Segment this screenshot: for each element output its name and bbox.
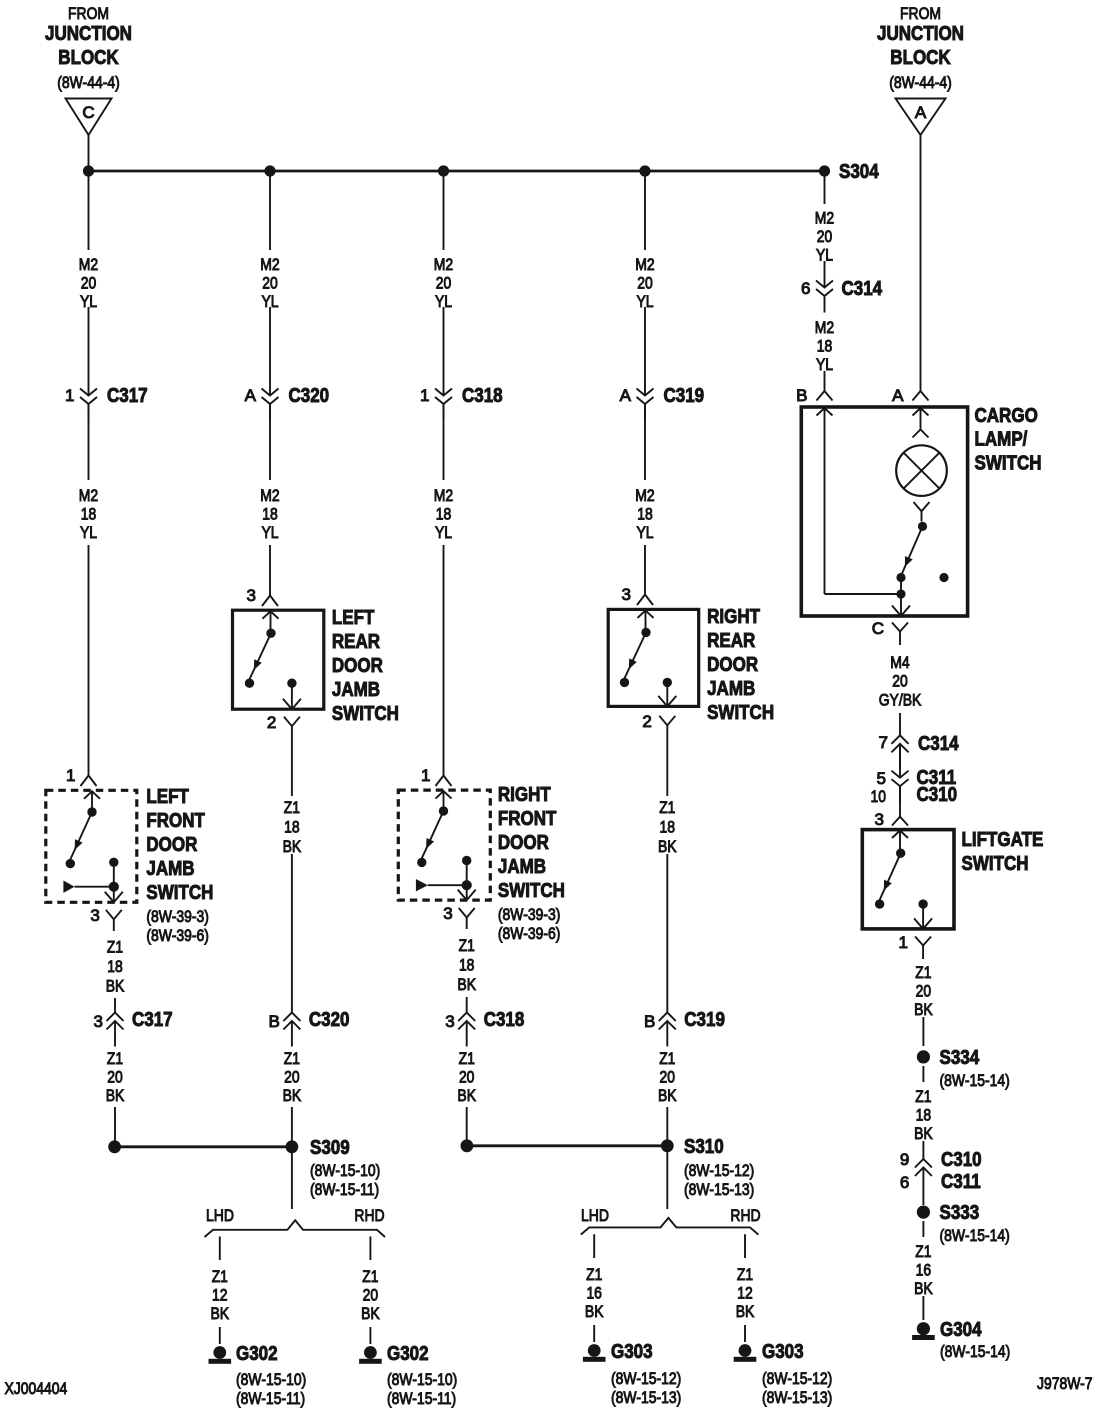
left rear door jamb switch contacts [245, 611, 297, 688]
connector triangle C [66, 99, 112, 136]
svg-text:9: 9 [900, 1150, 909, 1169]
svg-text:JAMB: JAMB [498, 856, 546, 878]
right front door jamb switch pin1 chevron [436, 791, 452, 799]
svg-text:(8W-39-3): (8W-39-3) [146, 907, 209, 926]
splice S309 [286, 1137, 381, 1199]
wire C310 to liftgate [899, 786, 901, 816]
svg-text:(8W-15-10): (8W-15-10) [236, 1370, 306, 1389]
cargo switch arm [902, 526, 923, 573]
splice junction col4 [639, 165, 650, 176]
svg-text:20: 20 [637, 274, 653, 293]
svg-text:3: 3 [875, 810, 884, 829]
cargo lamp terminal chevron [913, 430, 929, 438]
svg-text:BK: BK [283, 1086, 302, 1105]
wire col4 mid [644, 307, 646, 396]
svg-text:20: 20 [363, 1286, 379, 1305]
svg-text:BK: BK [283, 837, 302, 856]
liftgate pin3 chevron [892, 831, 908, 839]
right rear door jamb switch pin3 chevron [638, 610, 654, 618]
splice S333 [917, 1202, 1010, 1245]
left rear door jamb switch pin2 arrow [283, 683, 301, 709]
svg-text:C311: C311 [941, 1171, 981, 1193]
pin 2 fork right rear switch [642, 712, 675, 741]
svg-text:Z1: Z1 [212, 1267, 228, 1286]
svg-text:B: B [269, 1012, 280, 1031]
svg-text:M2: M2 [79, 255, 98, 274]
sheet code XJ004404 [5, 1379, 68, 1398]
LHD RHD labels S309 [206, 1206, 385, 1225]
svg-text:20: 20 [436, 274, 452, 293]
svg-text:(8W-15-10): (8W-15-10) [387, 1370, 457, 1389]
svg-text:20: 20 [262, 274, 278, 293]
splice junction col1 [83, 165, 94, 176]
wire col2 long to C320 B [291, 854, 293, 1013]
svg-text:JUNCTION: JUNCTION [877, 23, 964, 45]
wire label M2 18 YL S304 [815, 318, 834, 374]
pin A fork cargo lamp [892, 386, 928, 405]
svg-text:18: 18 [817, 337, 833, 356]
wire label Z1 18 BK col2 [283, 798, 302, 856]
wire RHD branch S309 [369, 1237, 371, 1261]
pin 1 label right front switch [421, 766, 430, 785]
svg-text:C319: C319 [684, 1009, 725, 1031]
svg-text:(8W-39-6): (8W-39-6) [146, 926, 209, 945]
right rear door jamb switch contacts [620, 610, 672, 687]
wire label Z1 12 BK S310 RHD [736, 1265, 755, 1321]
right rear door jamb switch name [707, 606, 774, 724]
liftgate switch box [862, 830, 954, 929]
svg-text:C318: C318 [462, 385, 503, 407]
LHD RHD labels S310 [581, 1206, 761, 1225]
svg-text:LAMP/: LAMP/ [975, 429, 1028, 451]
svg-text:C314: C314 [842, 278, 883, 300]
cargo switch contact open [939, 573, 948, 582]
svg-text:(8W-15-12): (8W-15-12) [762, 1369, 832, 1388]
svg-text:RIGHT: RIGHT [498, 784, 551, 806]
svg-text:16: 16 [586, 1284, 602, 1303]
wire col3 to switch [436, 545, 452, 786]
pin 3 fork left front switch [90, 906, 121, 931]
svg-text:DOOR: DOOR [498, 832, 549, 854]
svg-text:REAR: REAR [707, 630, 756, 652]
wire label Z1 16 BK S310 LHD [585, 1265, 604, 1321]
svg-text:1: 1 [65, 386, 74, 405]
svg-text:M2: M2 [260, 255, 279, 274]
svg-text:C: C [82, 103, 94, 122]
svg-text:18: 18 [262, 505, 278, 524]
svg-text:A: A [915, 103, 927, 122]
wire col3 below C318 [443, 404, 445, 480]
svg-text:BK: BK [106, 1086, 125, 1105]
pin C fork cargo lamp [872, 619, 908, 645]
left front door jamb switch pin3 arrow [105, 887, 123, 903]
svg-text:BLOCK: BLOCK [58, 47, 119, 69]
left front door jamb switch box [46, 790, 137, 902]
wire col3 upper [443, 171, 445, 250]
svg-text:LHD: LHD [206, 1206, 234, 1225]
wire S304 to cargo pin B [824, 371, 826, 391]
wire col4 long to C319 B [666, 854, 668, 1013]
pin 3 fork right front switch [443, 904, 474, 929]
svg-text:S334: S334 [940, 1047, 980, 1069]
connector C319 pinB [644, 1009, 725, 1047]
wire col2 below C320 [269, 404, 271, 480]
wire M4 down [899, 713, 901, 735]
svg-text:Z1: Z1 [459, 936, 475, 955]
svg-text:LIFTGATE: LIFTGATE [962, 829, 1044, 851]
svg-text:BK: BK [658, 1086, 677, 1105]
cargo lamp lower fork [914, 502, 930, 521]
svg-text:JAMB: JAMB [707, 678, 755, 700]
svg-text:(8W-44-4): (8W-44-4) [57, 73, 120, 92]
svg-text:RHD: RHD [354, 1206, 384, 1225]
connector C317 pin3 [94, 1009, 173, 1047]
wire col4 below switch [666, 741, 668, 796]
svg-text:Z1: Z1 [107, 938, 123, 957]
wire S309 horizontal [115, 1145, 292, 1148]
svg-text:20: 20 [660, 1068, 676, 1087]
svg-text:7: 7 [879, 733, 888, 752]
svg-text:M2: M2 [635, 486, 654, 505]
svg-text:M2: M2 [815, 318, 834, 337]
svg-text:Z1: Z1 [659, 798, 675, 817]
pin 1 label left front switch [66, 766, 75, 785]
wire col1 to C317 lower [114, 998, 116, 1013]
svg-text:BK: BK [211, 1304, 230, 1323]
svg-text:Z1: Z1 [737, 1265, 753, 1284]
svg-text:(8W-39-6): (8W-39-6) [498, 924, 561, 943]
svg-text:SWITCH: SWITCH [975, 452, 1042, 474]
right front door jamb switch name [498, 784, 565, 943]
svg-text:20: 20 [107, 1068, 123, 1087]
wire label M2 20 YL col3 [434, 255, 453, 311]
wire label Z1 20 BK col1 lower [106, 1049, 125, 1105]
cargo pin C arrow [892, 594, 910, 616]
svg-text:5: 5 [877, 769, 886, 788]
wire S333 dash [922, 1221, 924, 1237]
svg-text:XJ004404: XJ004404 [5, 1379, 68, 1398]
svg-text:YL: YL [636, 523, 653, 542]
wire label M2 18 YL col1 [79, 486, 98, 542]
svg-text:3: 3 [622, 585, 631, 604]
svg-text:20: 20 [916, 982, 932, 1001]
splice S304 [819, 161, 880, 183]
svg-text:YL: YL [261, 523, 278, 542]
wire to S334 [922, 1017, 924, 1046]
pin 1 fork liftgate [899, 933, 932, 959]
wire col1 to S309 [114, 1107, 116, 1141]
svg-text:J978W-7: J978W-7 [1037, 1374, 1093, 1393]
svg-text:M2: M2 [434, 486, 453, 505]
svg-text:B: B [796, 386, 807, 405]
wire col3 to S310 [466, 1107, 468, 1141]
left rear door jamb switch pin3 chevron [263, 611, 279, 619]
svg-text:CARGO: CARGO [975, 405, 1038, 427]
svg-text:(8W-15-13): (8W-15-13) [611, 1388, 681, 1407]
svg-text:A: A [245, 386, 257, 405]
connector C320 pinB [269, 1009, 350, 1047]
svg-text:(8W-15-11): (8W-15-11) [236, 1389, 305, 1408]
connector C318 pin1 [420, 385, 503, 421]
wire col4 upper [644, 171, 646, 250]
wire col1 below C317 [88, 404, 90, 480]
svg-text:JAMB: JAMB [332, 679, 380, 701]
wire S334 dash [922, 1066, 924, 1082]
svg-text:BK: BK [585, 1302, 604, 1321]
right rear door jamb switch pin2 arrow [658, 682, 676, 706]
svg-text:M4: M4 [890, 653, 909, 672]
svg-text:LHD: LHD [581, 1206, 609, 1225]
cargo internal B wire [825, 409, 902, 595]
svg-text:6: 6 [801, 279, 810, 298]
wire label M2 20 YL col4 [635, 255, 654, 311]
svg-text:(8W-15-13): (8W-15-13) [762, 1388, 832, 1407]
svg-text:C314: C314 [918, 733, 959, 755]
svg-text:C310: C310 [917, 784, 958, 806]
splice S310 left junction [461, 1139, 474, 1152]
svg-text:(8W-15-12): (8W-15-12) [611, 1369, 681, 1388]
wire label M2 18 YL col2 [260, 486, 279, 542]
splice S309 left junction [108, 1140, 121, 1153]
svg-text:C320: C320 [289, 385, 330, 407]
svg-text:BK: BK [457, 975, 476, 994]
svg-text:RHD: RHD [730, 1206, 760, 1225]
svg-text:BK: BK [914, 1124, 933, 1143]
svg-text:GY/BK: GY/BK [879, 691, 922, 710]
cargo pin A chevron [913, 408, 929, 416]
ground G303 RHD [734, 1341, 833, 1407]
left front door jamb switch contacts [66, 791, 119, 868]
svg-text:FROM: FROM [68, 4, 109, 23]
ground G302 RHD [359, 1343, 457, 1408]
wire col2 to switch [262, 545, 278, 606]
svg-text:Z1: Z1 [459, 1049, 475, 1068]
svg-text:3: 3 [94, 1012, 103, 1031]
svg-text:SWITCH: SWITCH [332, 703, 399, 725]
wire S304 to C314 [824, 261, 826, 288]
connector C311 pin5 [877, 767, 957, 803]
wire RHD branch S310 [744, 1234, 746, 1258]
wire label M4 20 GYBK [879, 653, 922, 710]
bus wire from C [89, 170, 825, 173]
svg-text:(8W-15-11): (8W-15-11) [310, 1180, 379, 1199]
svg-text:18: 18 [459, 956, 475, 975]
wire label Z1 20 BK col4 [658, 1049, 677, 1105]
wire col2 below switch [291, 742, 293, 796]
svg-text:(8W-15-12): (8W-15-12) [684, 1161, 754, 1180]
wire to G302 LHD [219, 1327, 221, 1344]
pin 2 fork left rear switch [267, 713, 300, 742]
svg-text:YL: YL [80, 523, 97, 542]
svg-text:18: 18 [107, 957, 123, 976]
svg-text:FRONT: FRONT [498, 808, 557, 830]
svg-text:Z1: Z1 [284, 798, 300, 817]
svg-text:BK: BK [736, 1302, 755, 1321]
svg-text:20: 20 [459, 1068, 475, 1087]
cargo lamp switch box [801, 407, 967, 616]
svg-text:DOOR: DOOR [707, 654, 758, 676]
svg-text:C317: C317 [132, 1009, 173, 1031]
svg-text:(8W-15-11): (8W-15-11) [387, 1389, 456, 1408]
splice junction col2 [264, 165, 275, 176]
svg-text:M2: M2 [260, 486, 279, 505]
cargo internal node [896, 578, 905, 599]
pin B fork cargo lamp [796, 386, 832, 405]
wire label Z1 20 BK col2 [283, 1049, 302, 1105]
svg-text:SWITCH: SWITCH [707, 702, 774, 724]
splice S334 [917, 1047, 1010, 1090]
right front door jamb switch pin3 arrow [458, 885, 476, 900]
sheet code J978W-7 [1037, 1374, 1093, 1393]
svg-text:18: 18 [660, 818, 676, 837]
right front door jamb switch plunger [416, 861, 472, 892]
svg-text:G302: G302 [387, 1343, 429, 1365]
left front door jamb switch plunger [63, 862, 119, 893]
svg-text:DOOR: DOOR [332, 655, 383, 677]
svg-text:SWITCH: SWITCH [962, 853, 1029, 875]
svg-text:G304: G304 [940, 1319, 982, 1341]
svg-text:3: 3 [90, 906, 99, 925]
svg-text:3: 3 [247, 586, 256, 605]
svg-text:1: 1 [420, 386, 429, 405]
wire label M2 18 YL col4 [635, 486, 654, 542]
wire label Z1 18 BK liftgate [914, 1087, 933, 1143]
wire col4 below C319 [644, 404, 646, 480]
liftgate pin1 arrow [914, 904, 932, 929]
svg-text:G303: G303 [762, 1341, 804, 1363]
ground G303 LHD [583, 1341, 681, 1407]
svg-text:Z1: Z1 [586, 1265, 602, 1284]
right front door jamb switch contacts [417, 791, 471, 867]
connector C318 pin3 [445, 1009, 524, 1047]
right front door jamb switch box [398, 790, 490, 900]
split brace S310 [581, 1218, 759, 1235]
svg-text:M2: M2 [635, 255, 654, 274]
svg-text:(8W-39-3): (8W-39-3) [498, 905, 561, 924]
wire label Z1 18 BK col4 [658, 798, 677, 856]
svg-text:(8W-15-14): (8W-15-14) [940, 1342, 1010, 1361]
wire label M2 20 YL S304 [815, 209, 834, 265]
connector C319 pinA [620, 385, 704, 421]
wire label Z1 18 BK col1 lower [106, 938, 125, 996]
pin 3 label right rear switch [622, 585, 631, 604]
svg-text:(8W-15-14): (8W-15-14) [940, 1226, 1010, 1245]
svg-text:S310: S310 [684, 1136, 724, 1158]
wire LHD branch S309 [219, 1237, 221, 1261]
wire label M2 18 YL col3 [434, 486, 453, 542]
wire label Z1 20 BK liftgate [914, 963, 933, 1019]
wire col3 mid [443, 307, 445, 396]
svg-text:JUNCTION: JUNCTION [45, 23, 132, 45]
svg-text:G303: G303 [611, 1341, 653, 1363]
wire to G303 RHD [744, 1325, 746, 1342]
cargo lamp bulb [896, 445, 947, 496]
svg-text:Z1: Z1 [659, 1049, 675, 1068]
svg-text:FRONT: FRONT [146, 810, 205, 832]
svg-text:B: B [644, 1012, 655, 1031]
split brace S309 [205, 1220, 386, 1237]
svg-text:S333: S333 [940, 1202, 980, 1224]
connector C314 pin6 [801, 278, 883, 313]
wire S310 down to split [666, 1146, 668, 1209]
svg-text:Z1: Z1 [107, 1049, 123, 1068]
cargo internal A wire [920, 408, 922, 430]
pin 10 label C310 [871, 784, 958, 806]
left rear door jamb switch box [233, 610, 324, 709]
liftgate switch contacts [875, 831, 928, 909]
wire triangle A to cargo lamp pin A [920, 135, 922, 391]
left rear door jamb switch name [332, 607, 399, 725]
svg-text:Z1: Z1 [915, 1242, 931, 1261]
svg-text:BLOCK: BLOCK [890, 47, 951, 69]
cargo switch pivot [918, 522, 927, 531]
wire to G303 LHD [593, 1325, 595, 1342]
svg-text:Z1: Z1 [915, 1087, 931, 1106]
svg-text:FROM: FROM [900, 4, 941, 23]
svg-text:20: 20 [817, 227, 833, 246]
svg-text:1: 1 [899, 933, 908, 952]
svg-text:BK: BK [658, 837, 677, 856]
svg-text:6: 6 [900, 1173, 909, 1192]
right rear door jamb switch box [608, 609, 699, 706]
junction block feed A label [877, 4, 964, 92]
svg-text:C320: C320 [309, 1009, 350, 1031]
svg-text:12: 12 [212, 1286, 228, 1305]
svg-text:M2: M2 [79, 486, 98, 505]
wire to G302 RHD [369, 1327, 371, 1344]
wire label Z1 18 BK col3 lower [457, 936, 476, 994]
wire col1 to switch [81, 545, 97, 786]
svg-text:M2: M2 [434, 255, 453, 274]
svg-text:C310: C310 [941, 1149, 982, 1171]
left front door jamb switch name [146, 786, 213, 945]
junction block feed C label [45, 4, 132, 92]
svg-text:C319: C319 [664, 385, 705, 407]
wire col2 mid [269, 307, 271, 396]
svg-text:A: A [620, 386, 632, 405]
splice junction col3 [438, 165, 449, 176]
svg-text:18: 18 [637, 505, 653, 524]
wire label Z1 20 BK col3 lower [457, 1049, 476, 1105]
connector C320 pinA [245, 385, 329, 421]
splice S310 [661, 1136, 754, 1199]
svg-text:BK: BK [361, 1304, 380, 1323]
svg-text:Z1: Z1 [915, 963, 931, 982]
svg-text:1: 1 [66, 766, 75, 785]
connector C314 pin7 [879, 733, 960, 769]
svg-text:20: 20 [284, 1068, 300, 1087]
wire between C314 C311 [899, 744, 901, 778]
svg-text:DOOR: DOOR [146, 834, 197, 856]
svg-text:BK: BK [914, 1000, 933, 1019]
wire S304 down [824, 171, 826, 204]
svg-text:LEFT: LEFT [146, 786, 189, 808]
svg-text:LEFT: LEFT [332, 607, 375, 629]
wire col1 upper [88, 171, 90, 250]
svg-text:18: 18 [284, 818, 300, 837]
svg-text:3: 3 [443, 904, 452, 923]
ground G304 [912, 1319, 1010, 1361]
svg-text:18: 18 [436, 505, 452, 524]
svg-text:S304: S304 [839, 161, 879, 183]
wire col2 upper [269, 171, 271, 250]
svg-text:(8W-15-14): (8W-15-14) [940, 1071, 1010, 1090]
wire label Z1 12 BK S309 LHD [211, 1267, 230, 1323]
svg-text:18: 18 [916, 1106, 932, 1125]
connector triangle A [896, 99, 946, 136]
svg-text:M2: M2 [815, 209, 834, 228]
connector C317 pin1 [65, 385, 148, 421]
